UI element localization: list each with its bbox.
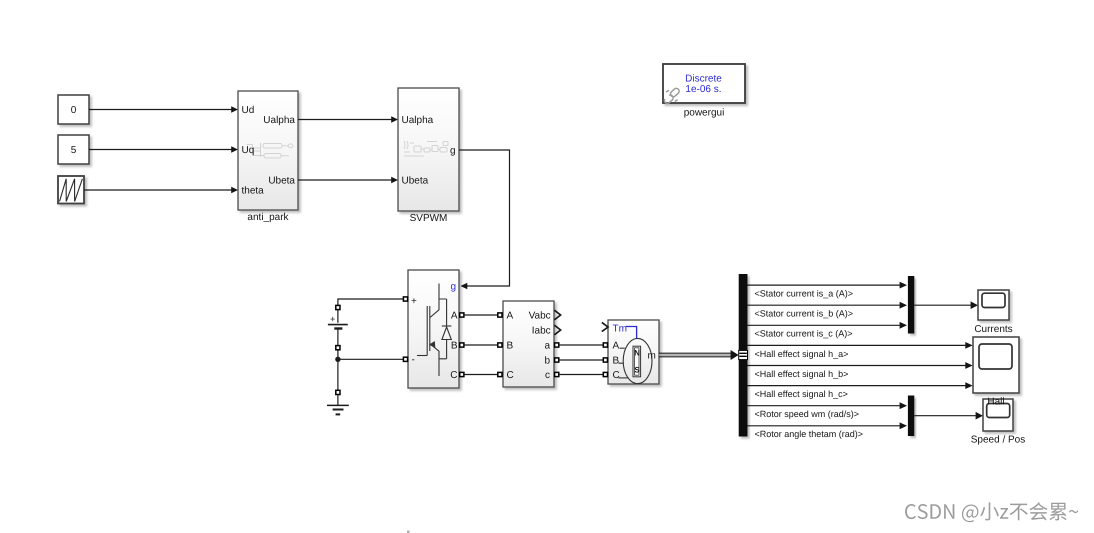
svg-text:Ubeta: Ubeta [402,176,429,187]
svg-text:B: B [451,341,458,352]
svg-text:SVPWM: SVPWM [410,213,448,224]
motor C port square [603,372,607,376]
arrowhead into inverter g [461,283,468,290]
svg-text:C: C [507,370,514,381]
wire anti_park Ubeta to SVPWM [298,179,392,181]
svg-text:B: B [613,356,620,367]
svg-text:Ud: Ud [242,105,255,116]
three-phase VI measurement block [503,301,554,387]
battery long plate [328,324,348,326]
wire junction to inverter - [338,358,403,360]
wire hall signal h_b [748,365,966,367]
svg-text:Iabc: Iabc [532,326,551,337]
measurement B port square [498,343,502,347]
svg-text:<Rotor speed wm (rad/s)>: <Rotor speed wm (rad/s)> [755,409,860,419]
battery short plate [334,327,342,329]
arrowhead stator current is_a [900,282,907,289]
svg-text:5: 5 [71,145,77,156]
motor Tm blue connector line [626,327,637,339]
motor A port square [603,343,607,347]
Vabc unconnected output chevron [554,310,560,320]
inverter block (universal bridge) [408,270,459,388]
Iabc unconnected output chevron [554,325,560,335]
Speed/Pos scope screen [987,404,1010,418]
svg-text:Vabc: Vabc [529,311,551,322]
motor rotor ellipse [623,338,652,383]
svg-text:A: A [451,311,458,322]
wire inverter A to measurement A [464,314,497,316]
svg-text:<Rotor angle thetam (rad)>: <Rotor angle thetam (rad)> [755,429,864,439]
wire 0 to anti_park Ud [89,109,232,111]
motor C lead line [619,377,629,379]
motor B port square [603,358,607,362]
SVPWM preview sketch [404,141,448,156]
measurement b port square [555,358,559,362]
inverter A port square [460,313,464,317]
inverter - port square [403,357,407,361]
bus arrowhead [731,350,739,360]
svg-text:<Hall effect signal h_b>: <Hall effect signal h_b> [755,369,849,379]
svg-text:powergui: powergui [684,108,725,119]
powergui broken-link icon [663,87,680,104]
measurement a port square [555,343,559,347]
motor Tm unconnected input chevron [602,322,608,331]
DC source - terminal port [336,346,340,350]
wire rotor speed wm [748,405,900,407]
motor magnet inner rect [635,348,639,375]
arrowhead into SVPWM Ualpha [391,116,398,123]
svg-text:Uq: Uq [242,145,255,156]
wire sawtooth to anti_park theta [84,189,232,191]
ground port square [336,390,340,394]
arrowhead into Ud [231,106,238,113]
svg-text:g: g [450,146,456,157]
bus selector bar [739,274,748,437]
arrowhead into Uq [231,146,238,153]
wire mux to Speed/Pos scope [914,415,976,417]
Currents scope block [978,290,1009,320]
svg-text:<Hall effect signal h_c>: <Hall effect signal h_c> [755,389,848,399]
measurement c port square [555,372,559,376]
Speed/Pos scope block [983,399,1013,431]
svg-text:A: A [613,341,620,352]
svg-text:Ualpha: Ualpha [402,115,434,126]
wire hall signal h_a [748,344,966,346]
wire stator current is_b [748,304,900,306]
inverter C port square [460,372,464,376]
subsystem anti_park [238,91,298,210]
inverter + port square [403,297,407,301]
svg-text:Discrete: Discrete [685,74,722,85]
wire measurement c to motor C [559,374,603,376]
svg-text:-: - [412,355,415,366]
arrowhead rotor speed wm [900,402,907,409]
arrowhead into theta [231,187,238,194]
svg-text:0: 0 [71,105,77,116]
svg-text:Hall: Hall [987,397,1004,408]
mux for stator currents [908,276,914,334]
wire 5 to anti_park Uq [89,149,232,151]
motor A lead line [620,347,625,349]
wire anti_park Ualpha to SVPWM [298,119,392,121]
arrowhead into Currents scope [971,301,978,309]
wire rotor angle thetam [748,425,900,427]
battery bottom wire [337,329,339,360]
arrowhead hall signal h_b [965,362,972,369]
constant block 0 [58,95,89,124]
bus wire motor m to bus selector [659,353,732,357]
svg-text:<Hall effect signal h_a>: <Hall effect signal h_a> [755,349,849,359]
inverter B port square [460,343,464,347]
Hall scope block [973,337,1019,393]
svg-text:Speed / Pos: Speed / Pos [971,435,1025,446]
svg-text:+: + [330,314,335,324]
Hall scope screen [979,344,1012,369]
wire stator current is_a [748,284,900,286]
svg-text:B: B [507,341,514,352]
svg-text:anti_park: anti_park [247,212,289,223]
CSDN watermark [905,502,1078,522]
svg-text:N: N [634,349,640,358]
repeating sequence (sawtooth) block [58,176,84,204]
wire SVPWM g to inverter g [459,150,510,286]
measurement A port square [498,313,502,317]
wire junction down to ground [337,359,339,405]
wire stator current is_c [748,324,900,326]
junction node [335,357,340,362]
arrowhead stator current is_c [900,322,907,329]
wire inverter C to measurement C [464,374,497,376]
svg-text:S: S [634,366,640,375]
svg-text:a: a [544,341,550,352]
wire measurement a to motor A [559,344,603,346]
svg-text:<Stator current is_a (A)>: <Stator current is_a (A)> [755,289,854,299]
motor magnet outer rect [633,346,641,377]
svg-text:Tm: Tm [613,324,627,335]
PMSM motor block [608,320,659,384]
svg-text:g: g [450,282,456,293]
arrowhead hall signal h_c [965,382,972,389]
svg-text:1e-06 s.: 1e-06 s. [685,84,721,95]
svg-text:m: m [647,351,655,362]
wire mux to Currents scope [914,304,971,306]
arrowhead stator current is_b [900,302,907,309]
svg-text:+: + [411,296,417,307]
inverter IGBT/diode icon [417,284,451,377]
svg-text:theta: theta [242,186,265,197]
powergui block [663,64,745,103]
Currents scope screen [982,293,1005,307]
svg-text:A: A [507,311,514,322]
bus selector input port stripes [739,350,748,359]
DC source + terminal port [336,305,340,309]
wire hall signal h_c [748,385,966,387]
svg-text:Ualpha: Ualpha [263,115,295,126]
svg-text:Ubeta: Ubeta [268,176,295,187]
svg-text:C: C [450,370,457,381]
arrowhead rotor angle thetam [900,422,907,429]
arrowhead hall signal h_a [965,342,972,349]
svg-text:<Stator current is_b (A)>: <Stator current is_b (A)> [755,309,854,319]
svg-text:Currents: Currents [974,324,1012,335]
arrowhead into Speed/Pos scope [976,412,983,420]
mux for speed/position [908,396,914,437]
DC source top wire to inverter + [338,299,403,323]
svg-text:b: b [544,356,550,367]
constant block 5 [58,135,89,164]
stray mark bottom [407,531,410,533]
wire measurement b to motor B [559,359,603,361]
arrowhead into SVPWM Ubeta [391,177,398,184]
svg-text:<Stator current is_c (A)>: <Stator current is_c (A)> [755,329,853,339]
svg-text:C: C [613,370,620,381]
anti_park preview sketch [247,143,293,158]
subsystem SVPWM [398,88,459,211]
motor B lead line [619,362,624,364]
wire inverter B to measurement B [464,344,497,346]
measurement C port square [498,372,502,376]
ground symbol [327,405,349,414]
svg-text:c: c [545,370,550,381]
